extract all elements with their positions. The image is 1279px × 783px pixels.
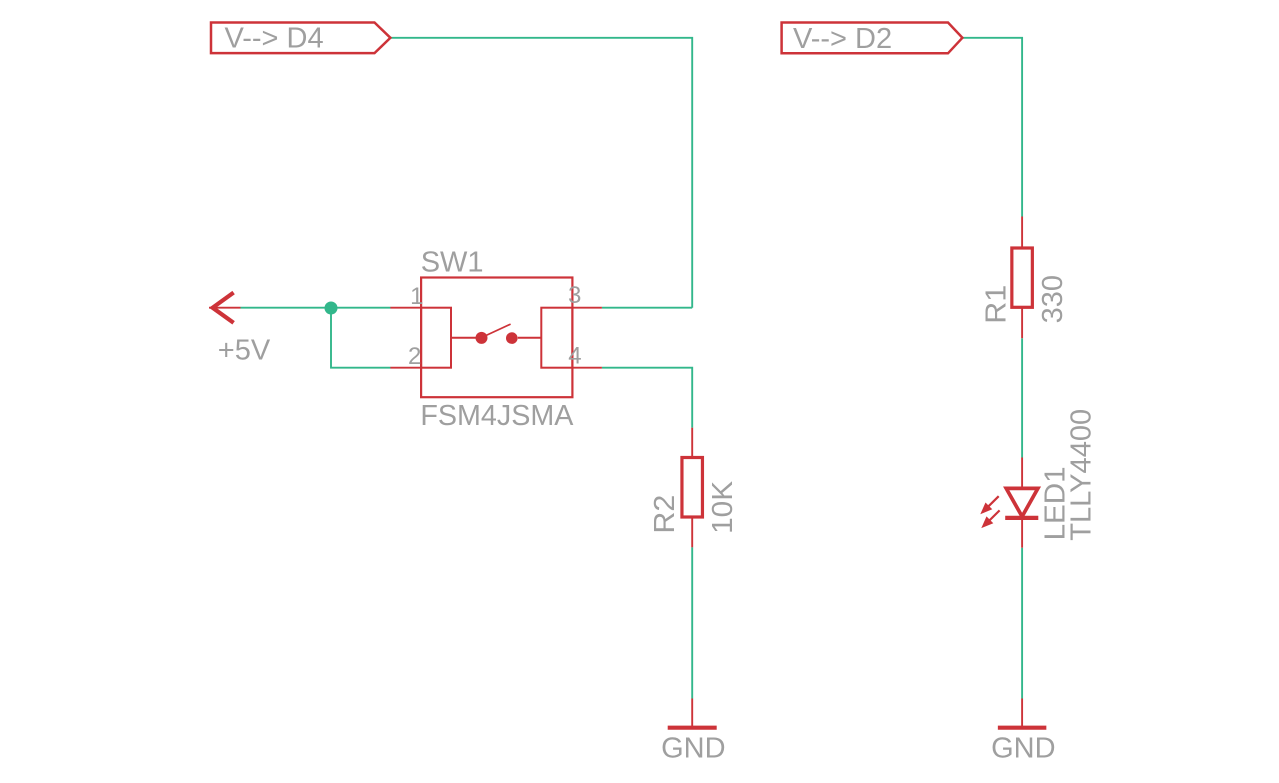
svg-text:3: 3	[568, 282, 581, 309]
svg-text:FSM4JSMA: FSM4JSMA	[420, 400, 574, 432]
svg-text:TLLY4400: TLLY4400	[1066, 409, 1098, 541]
svg-text:10K: 10K	[707, 480, 739, 534]
svg-text:1: 1	[410, 283, 423, 310]
svg-text:R2: R2	[649, 495, 681, 534]
svg-text:R1: R1	[980, 285, 1012, 324]
svg-text:330: 330	[1037, 275, 1069, 323]
svg-text:V--> D4: V--> D4	[225, 23, 324, 55]
svg-text:4: 4	[568, 343, 581, 370]
svg-text:V--> D2: V--> D2	[793, 23, 892, 55]
svg-text:GND: GND	[661, 732, 725, 764]
svg-text:2: 2	[408, 343, 421, 370]
svg-text:GND: GND	[991, 732, 1055, 764]
svg-text:SW1: SW1	[421, 247, 484, 279]
svg-text:+5V: +5V	[218, 334, 271, 366]
